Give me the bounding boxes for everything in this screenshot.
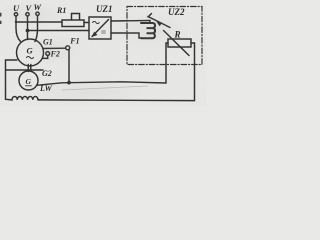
label F1 — [69, 37, 79, 46]
wire W phase down to G1 — [35, 16, 38, 42]
label LW — [39, 84, 53, 93]
contact blade — [148, 17, 170, 28]
regulator UZ2 frame — [127, 7, 202, 65]
terminal F2 — [46, 52, 50, 56]
node U label — [13, 3, 20, 13]
rectifier UZ1 arrow — [92, 32, 98, 37]
page edge mark 1 — [0, 13, 2, 17]
terminal F1 — [66, 46, 70, 50]
label G1 — [43, 38, 53, 47]
node V label — [26, 3, 33, 13]
rectifier UZ1 AC tilde — [93, 21, 100, 23]
inductor LW — [6, 97, 39, 100]
svg-text:G2: G2 — [42, 69, 52, 78]
rectifier UZ1 diagonal — [92, 20, 109, 37]
rectifier UZ1 DC sign — [102, 31, 106, 33]
generator G1 letter — [27, 46, 34, 56]
relay coil — [141, 23, 155, 38]
terminal W — [36, 12, 39, 15]
wire V phase down to G1 — [27, 16, 29, 40]
label F2 — [50, 50, 60, 59]
resistor R wiper diagonal — [164, 31, 190, 56]
generator G1 tilde — [27, 57, 34, 59]
junction F1 bus — [67, 81, 71, 85]
faint crease line — [62, 86, 148, 90]
contact arrowhead — [157, 22, 163, 26]
rectifier UZ1 box — [89, 17, 111, 39]
svg-text:UZ1: UZ1 — [96, 4, 113, 14]
terminal U — [14, 13, 17, 16]
resistor R1 label — [56, 6, 66, 15]
terminal V — [26, 13, 29, 16]
wire U phase down to G1 — [16, 16, 21, 42]
page edge mark 2 — [0, 21, 2, 25]
field bus wire G2 to R left — [37, 43, 167, 85]
wire G1 left lead to left bus — [6, 60, 18, 99]
generator G1 circle — [17, 39, 44, 66]
generator G2 DC bar — [26, 85, 32, 87]
wire R left — [166, 42, 168, 44]
node W label — [34, 2, 43, 12]
wire R right — [191, 42, 195, 44]
label UZ2 — [168, 7, 185, 17]
wire F1 down to field bus — [68, 50, 70, 83]
wire branch to G2 top — [6, 69, 44, 71]
coil entry stub — [149, 21, 151, 24]
rectifier UZ1 label — [96, 4, 113, 14]
wire U to R1 — [16, 21, 62, 23]
generator G2 letter — [26, 77, 32, 86]
wire bottom bus to R right — [38, 43, 195, 101]
paper background — [0, 0, 207, 106]
resistor R — [168, 39, 191, 47]
generator G2 circle — [19, 71, 38, 90]
resistor R1 — [62, 20, 84, 27]
wire UZ1 bottom output to coil — [111, 33, 142, 38]
resistor R1 slider tap — [72, 14, 80, 20]
wire V to UZ1 lower input — [28, 30, 90, 32]
wire UZ1 top output to contact — [111, 20, 150, 23]
junction V tap — [26, 29, 30, 33]
svg-text:G: G — [26, 77, 32, 86]
wire F1 to G1 field — [43, 47, 66, 49]
label R — [174, 30, 181, 40]
wire F2 to G1 — [43, 55, 48, 58]
contact pivot tick — [148, 14, 152, 18]
shaft coupling G1-G2 — [28, 65, 31, 72]
junction U tap — [15, 21, 17, 23]
label G2 — [42, 69, 52, 78]
wire R1 to UZ1 — [84, 22, 89, 24]
